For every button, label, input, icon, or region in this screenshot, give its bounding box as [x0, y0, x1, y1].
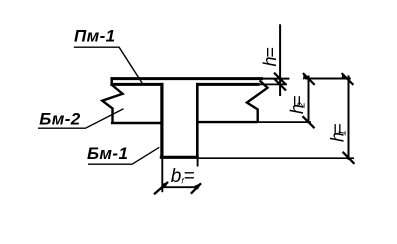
svg-text:bf=: bf=	[171, 166, 195, 187]
svg-text:Пм-1: Пм-1	[74, 27, 116, 46]
svg-text:Бм-2: Бм-2	[39, 109, 80, 128]
svg-text:Бм-1: Бм-1	[87, 144, 128, 163]
svg-text:h=: h=	[260, 48, 280, 67]
